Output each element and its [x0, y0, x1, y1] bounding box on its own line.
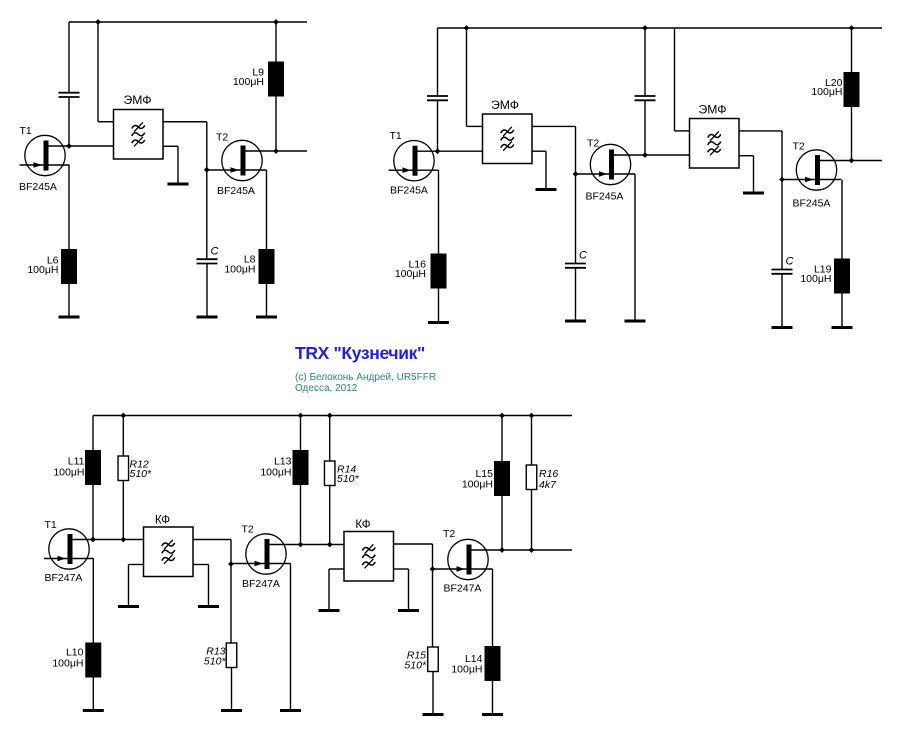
- wire rail to L13: [300, 416, 302, 451]
- wire capacitor C to ground: [206, 264, 208, 318]
- node T2 gate (circuit 3): [228, 561, 234, 567]
- wire filter 2 pin 4: [532, 150, 546, 152]
- svg-text:Одесса, 2012: Одесса, 2012: [295, 383, 358, 394]
- ground: [625, 320, 646, 323]
- ground: [536, 188, 557, 191]
- wire KF2 pin 2: [329, 568, 344, 570]
- node T2b gate: [779, 177, 785, 183]
- svg-text:BF247A: BF247A: [444, 583, 482, 595]
- capacitor (T1 drain bypass, circuit 2): [427, 96, 448, 100]
- ground: [772, 326, 793, 329]
- wire down to T2 gate node: [230, 540, 232, 565]
- node rail to filter feed: [95, 19, 101, 25]
- svg-text:TRX "Кузнечик": TRX "Кузнечик": [295, 343, 425, 363]
- svg-text:BF245A: BF245A: [586, 191, 624, 203]
- wire L14 to ground: [492, 681, 494, 715]
- svg-text:100μH: 100μH: [52, 658, 83, 670]
- transistor T2 (BF245A): [576, 144, 690, 184]
- resistor R16: [526, 465, 537, 490]
- wire to filter pin 1: [467, 125, 483, 127]
- wire rail to L20: [851, 28, 853, 72]
- node rail to R12: [120, 413, 126, 419]
- node rail to L9: [273, 19, 279, 25]
- svg-text:BF245A: BF245A: [390, 185, 428, 197]
- wire down to T2 gate node: [575, 126, 577, 174]
- svg-text:BF245A: BF245A: [217, 185, 255, 197]
- wire filter pin 4 to ground stub: [163, 145, 178, 147]
- wire rail down to filter 3 pin 1: [674, 28, 676, 131]
- resistor R15: [428, 647, 439, 672]
- wire R15 to ground: [432, 672, 434, 715]
- ground: [482, 713, 503, 716]
- wire L11 to T1 drain node: [92, 485, 94, 540]
- node rail to L13: [298, 413, 304, 419]
- inductor L16: [431, 254, 447, 289]
- inductor L13: [293, 450, 309, 485]
- svg-text:100μH: 100μH: [260, 467, 291, 479]
- wire capacitor to ground: [575, 268, 577, 321]
- wire KF2 pin 4: [394, 568, 409, 570]
- wire rail to R14: [329, 416, 331, 462]
- wire to filter pin 1: [98, 121, 114, 123]
- svg-text:BF245A: BF245A: [19, 181, 57, 193]
- inductor L8: [259, 249, 275, 284]
- svg-text:100μH: 100μH: [451, 664, 482, 676]
- ground: [168, 183, 189, 186]
- ground: [221, 709, 242, 712]
- svg-text:T1: T1: [20, 125, 32, 137]
- svg-text:BF247A: BF247A: [242, 578, 280, 590]
- wire mid capacitor to T2 drain: [644, 101, 646, 156]
- wire L10 to ground: [92, 678, 94, 711]
- svg-text:T2: T2: [587, 138, 599, 150]
- resistor R14: [324, 461, 335, 486]
- wire L19 to ground: [841, 294, 843, 328]
- wire T1 source down: [68, 165, 70, 249]
- svg-text:ЭМФ: ЭМФ: [123, 93, 151, 107]
- node T1 drain / L11: [90, 537, 96, 543]
- wire rail to mid capacitor: [644, 28, 646, 96]
- wire R13 to ground: [231, 668, 233, 711]
- wire top supply rail (circuit 2): [438, 27, 883, 29]
- transistor T2 (BF245A): [782, 150, 882, 190]
- wire rail junction down to filter pin 1: [97, 22, 99, 122]
- resistor R13: [226, 643, 237, 668]
- wire gate node down to capacitor C: [206, 170, 208, 259]
- node T2 drain / L13: [298, 542, 304, 548]
- svg-text:C: C: [786, 255, 794, 267]
- ground: [398, 609, 419, 612]
- wire down to ground: [753, 156, 755, 193]
- ground: [428, 321, 449, 324]
- svg-text:510*: 510*: [130, 468, 153, 480]
- transistor T1 (BF245A): [389, 141, 483, 181]
- wire gate node down to capacitor C: [575, 174, 577, 264]
- svg-text:T2: T2: [242, 524, 254, 536]
- node rail to R14: [327, 413, 333, 419]
- wire rail to L9: [275, 22, 277, 62]
- svg-text:КФ: КФ: [155, 514, 170, 527]
- ground: [565, 320, 586, 323]
- svg-text:100μH: 100μH: [462, 479, 493, 491]
- wire rail to L11: [92, 416, 94, 451]
- wire top supply rail (circuit 1): [69, 21, 307, 23]
- wire down to ground: [208, 565, 210, 607]
- wire L13 to T2 drain: [300, 485, 302, 545]
- capacitor C (gate): [197, 259, 218, 263]
- wire KF1 output: [193, 539, 231, 541]
- ground: [83, 709, 104, 712]
- wire capacitor to T1 drain node: [437, 101, 439, 152]
- wire rail to R12: [122, 416, 124, 457]
- wire down to ground: [408, 569, 410, 611]
- wire down to T2b gate node: [432, 544, 434, 569]
- inductor L20: [844, 72, 860, 107]
- svg-text:510*: 510*: [204, 656, 227, 668]
- wire R12 to T1 drain node: [122, 481, 124, 540]
- node T2 drain / L9: [273, 148, 279, 154]
- node rail to filter 1 feed: [464, 25, 470, 31]
- ground: [256, 316, 277, 319]
- wire L6 to ground: [68, 284, 70, 317]
- wire KF2 output: [394, 543, 433, 545]
- svg-text:ЭМФ: ЭМФ: [698, 103, 726, 117]
- svg-text:КФ: КФ: [355, 518, 370, 531]
- wire T2b source down: [492, 569, 494, 646]
- filter ЭМФ U1: [114, 110, 164, 160]
- node rail to R16: [529, 413, 535, 419]
- svg-text:100μH: 100μH: [224, 264, 255, 276]
- svg-text:100μH: 100μH: [27, 264, 58, 276]
- node T2b drain / R16: [529, 547, 535, 553]
- inductor L9: [268, 62, 284, 97]
- wire to filter 3 pin 1: [675, 130, 690, 132]
- capacitor (T1 drain bypass): [59, 93, 80, 97]
- wire T2b source down: [841, 180, 843, 259]
- wire KF1 pin 2: [129, 564, 144, 566]
- ground: [59, 316, 80, 319]
- wire capacitor to ground: [781, 274, 783, 328]
- svg-text:T2: T2: [216, 131, 228, 143]
- svg-text:ЭМФ: ЭМФ: [491, 98, 519, 112]
- ground: [118, 605, 139, 608]
- wire T2 source to ground: [290, 564, 292, 711]
- node T2b gate (circuit 3): [430, 566, 436, 572]
- wire down to ground: [128, 565, 130, 607]
- wire R14 to T2 drain: [329, 486, 331, 545]
- wire T1 source down: [92, 559, 94, 643]
- wire supply rail (circuit 3): [93, 415, 572, 417]
- inductor L11: [85, 450, 101, 485]
- transistor T2 (BF247A): [231, 534, 344, 574]
- wire down to T2 gate node: [206, 122, 208, 170]
- svg-text:T1: T1: [45, 519, 57, 531]
- ground: [832, 326, 853, 329]
- wire T1 source down: [438, 170, 440, 253]
- node rail to mid capacitor: [642, 25, 648, 31]
- inductor L10: [85, 643, 101, 678]
- node T1 drain / R12: [120, 537, 126, 543]
- wire down to ground: [177, 146, 179, 184]
- wire L9 to T2 drain: [275, 97, 277, 152]
- filter КФ Z1: [144, 527, 194, 577]
- wire L20 to T2b drain: [851, 107, 853, 161]
- wire rail to capacitor: [437, 28, 439, 96]
- wire gate node down to capacitor C: [781, 180, 783, 270]
- wire R16 to T2b drain: [531, 490, 533, 551]
- node T2b drain / L15: [499, 547, 505, 553]
- capacitor C (right gate): [772, 270, 793, 274]
- node rail to L15: [499, 413, 505, 419]
- filter КФ Z2: [344, 532, 394, 582]
- ground: [280, 709, 301, 712]
- svg-text:T2: T2: [443, 528, 455, 540]
- wire down to T2b gate node: [781, 131, 783, 180]
- inductor L6: [61, 249, 77, 284]
- svg-text:100μH: 100μH: [395, 268, 426, 280]
- wire T2 source down: [266, 170, 268, 249]
- transistor T2 (BF247A): [433, 539, 573, 579]
- wire rail junction down to filter pin 1: [466, 28, 468, 126]
- transistor T1 (BF247A): [44, 529, 144, 569]
- node T2 gate (mid): [573, 171, 579, 177]
- inductor L19: [834, 259, 850, 294]
- svg-text:100μH: 100μH: [811, 86, 842, 98]
- wire L8 to ground: [266, 284, 268, 317]
- wire gate node down to R15: [432, 569, 434, 647]
- wire capacitor to T1 drain node: [68, 97, 70, 146]
- wire L16 to ground: [438, 289, 440, 323]
- svg-text:510*: 510*: [404, 660, 427, 672]
- svg-text:C: C: [211, 245, 219, 257]
- node T1 drain (circuit 2): [435, 148, 441, 154]
- node T1 drain: [66, 143, 72, 149]
- svg-text:C: C: [579, 249, 587, 261]
- ground: [197, 316, 218, 319]
- ground: [423, 713, 444, 716]
- wire down to ground: [545, 151, 547, 189]
- svg-text:100μH: 100μH: [233, 76, 264, 88]
- transistor T1 (BF245A): [20, 135, 114, 175]
- capacitor C (mid gate): [565, 264, 586, 268]
- transistor T2 (BF245A): [207, 140, 307, 180]
- node T2 drain / R14: [327, 542, 333, 548]
- svg-text:T1: T1: [390, 130, 402, 142]
- svg-text:510*: 510*: [337, 473, 360, 485]
- ground: [743, 192, 764, 195]
- svg-text:BF247A: BF247A: [45, 572, 83, 584]
- filter ЭМФ U3: [690, 119, 740, 169]
- wire rail to L15: [501, 416, 503, 462]
- capacitor (T2 drain bypass): [635, 96, 656, 100]
- svg-text:(c) Белоконь Андрей, UR5FFR: (c) Белоконь Андрей, UR5FFR: [295, 372, 436, 383]
- node T2b drain / L20: [849, 158, 855, 164]
- svg-text:T2: T2: [793, 141, 805, 153]
- ground: [198, 605, 219, 608]
- svg-text:BF245A: BF245A: [793, 198, 831, 210]
- wire filter output pin 3: [163, 121, 207, 123]
- svg-text:4k7: 4k7: [539, 479, 557, 491]
- wire filter 2 output: [532, 125, 576, 127]
- wire filter 3 pin 4: [739, 155, 754, 157]
- wire KF1 pin 4: [193, 564, 209, 566]
- wire rail to capacitor: [68, 22, 70, 93]
- svg-text:100μH: 100μH: [53, 467, 84, 479]
- node rail to L20: [849, 25, 855, 31]
- filter ЭМФ U2: [483, 114, 533, 164]
- svg-text:100μH: 100μH: [800, 273, 831, 285]
- resistor R12: [118, 456, 129, 481]
- wire filter 3 output: [739, 130, 782, 132]
- inductor L14: [485, 646, 501, 681]
- node T2 drain (mid): [642, 152, 648, 158]
- inductor L15: [494, 461, 510, 496]
- wire L15 to T2b drain: [501, 496, 503, 550]
- wire T2 source to ground: [634, 174, 636, 321]
- ground: [319, 609, 340, 612]
- wire gate node down to R13: [230, 564, 232, 643]
- wire rail to R16: [531, 416, 533, 466]
- wire down to ground: [328, 569, 330, 611]
- node T2 gate: [204, 167, 210, 173]
